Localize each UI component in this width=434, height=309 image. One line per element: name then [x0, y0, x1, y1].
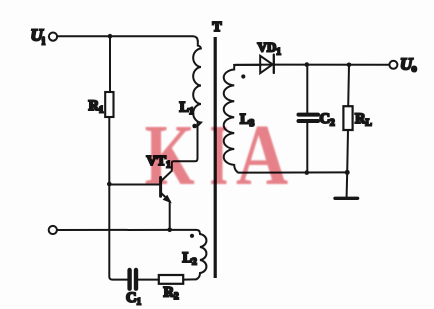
- capacitor C2 plates: [299, 113, 319, 117]
- inductor L1 winding: [193, 41, 201, 126]
- svg-text:R1: R1: [89, 98, 104, 116]
- transformer core T: [214, 37, 217, 278]
- ground: [335, 197, 358, 200]
- watermark KIA: [145, 107, 289, 204]
- resistor R1: [105, 92, 113, 117]
- wire node A to L1 top: [110, 36, 198, 41]
- node F junction (ground tee): [345, 170, 350, 175]
- wire RL branch lower: [346, 130, 349, 172]
- resistor R2: [159, 275, 183, 284]
- node B junction (base tee): [107, 182, 112, 187]
- wire R1 to node B: [108, 117, 110, 184]
- diode VD1: [260, 56, 272, 73]
- L3 phase dot: [241, 74, 245, 78]
- wire node B down left rail: [109, 184, 127, 280]
- wire emitter junction to L2: [170, 230, 200, 234]
- wire through diode: [234, 64, 274, 66]
- svg-text:VD1: VD1: [258, 40, 282, 58]
- L2 phase dot: [190, 234, 194, 238]
- wire secondary bottom: [247, 171, 347, 173]
- L1 phase dot: [192, 124, 197, 129]
- wire C2 branch upper: [306, 65, 308, 113]
- node D junction (RL top): [347, 63, 352, 68]
- wire base: [109, 184, 159, 186]
- svg-text:RL: RL: [355, 111, 372, 129]
- inductor L2 winding: [196, 234, 207, 279]
- node A junction: [108, 34, 113, 39]
- wire to ground: [346, 172, 349, 196]
- transistor VT1 emitter: [162, 193, 170, 229]
- node G junction (emitter tee): [167, 228, 172, 233]
- node E junction (C2 bottom): [305, 170, 310, 175]
- wire lower input: [57, 229, 168, 231]
- node C junction (C2 top): [305, 62, 310, 67]
- wire R2 to L2: [183, 278, 196, 280]
- capacitor C1 plates: [127, 270, 131, 289]
- transistor VT1 base bar: [159, 178, 162, 197]
- svg-text:K: K: [145, 107, 195, 204]
- wire C1 to R2: [138, 279, 159, 281]
- svg-text:C2: C2: [320, 111, 335, 129]
- svg-text:C1: C1: [126, 290, 141, 308]
- transistor VT1 emitter arrow: [164, 196, 171, 202]
- svg-text:i: i: [42, 37, 45, 48]
- svg-text:I: I: [210, 107, 229, 204]
- inductor L3 winding: [224, 65, 261, 173]
- terminal Uo: [389, 61, 397, 69]
- wire diode to Uo: [274, 64, 390, 66]
- wire Ui to node A: [57, 35, 109, 37]
- wire C2 branch lower: [306, 123, 308, 173]
- wire node A down to R1: [109, 36, 111, 92]
- svg-text:T: T: [213, 19, 222, 34]
- terminal input lower: [49, 226, 57, 234]
- svg-text:L2: L2: [183, 250, 198, 268]
- wire RL branch upper: [347, 65, 350, 106]
- svg-text:R2: R2: [164, 285, 179, 303]
- svg-text:A: A: [236, 108, 288, 204]
- transistor VT1 collector: [162, 123, 198, 181]
- terminal Ui: [49, 33, 57, 41]
- resistor RL: [343, 106, 352, 130]
- svg-text:o: o: [412, 64, 417, 75]
- diode VD1 cathode bar: [273, 55, 275, 73]
